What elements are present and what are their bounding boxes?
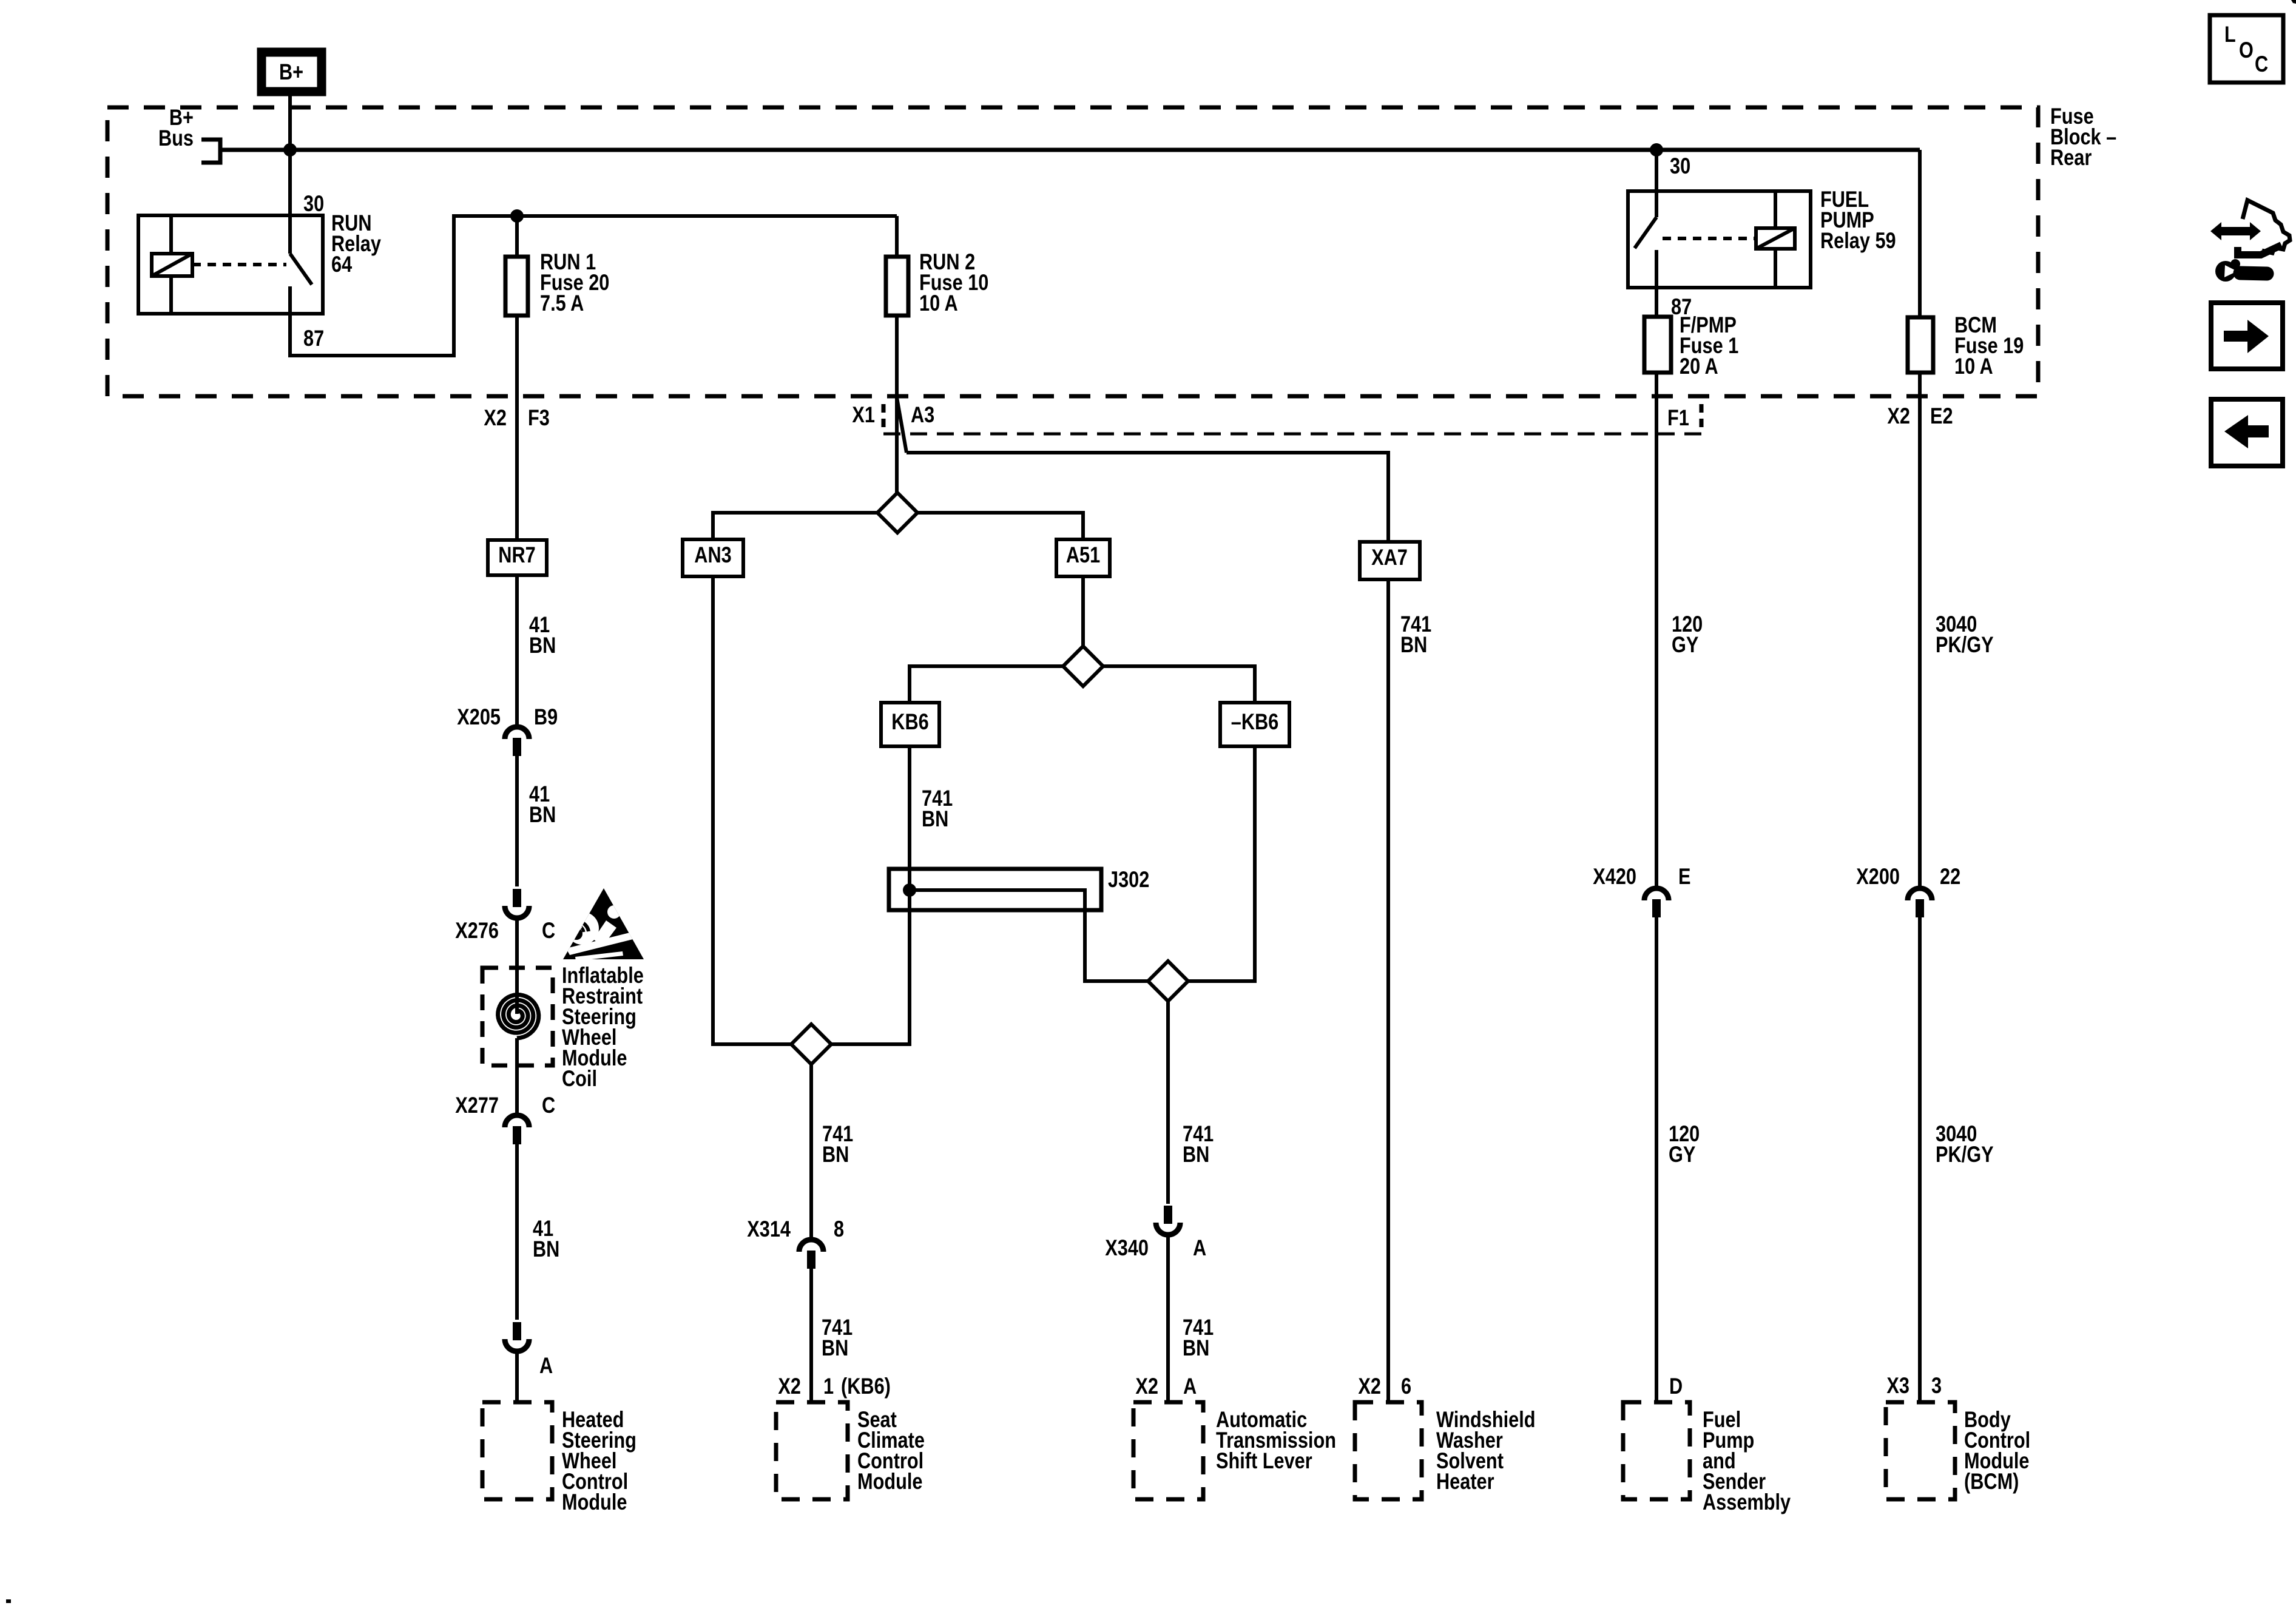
svg-text:8: 8	[834, 1217, 844, 1241]
wire RUN 1 fuse to NR7	[515, 316, 519, 540]
label Inflatable Restraint Steering Wheel Module Coil	[562, 963, 644, 988]
label FUEL PUMP Relay 59	[1820, 187, 1869, 212]
wire X420 to fuel pump (ckt 120 GY)	[1655, 917, 1658, 1402]
svg-text:Assembly: Assembly	[1703, 1490, 1791, 1514]
svg-text:Module: Module	[857, 1469, 922, 1494]
svg-text:A: A	[539, 1353, 553, 1378]
svg-text:10 A: 10 A	[919, 291, 958, 316]
svg-text:AN3: AN3	[694, 542, 731, 567]
wire X314 to seat climate control module (ckt 741 BN)	[809, 1268, 813, 1402]
label RUN Relay 64	[331, 211, 372, 235]
svg-text:BN: BN	[533, 1237, 559, 1261]
svg-text:Rear: Rear	[2050, 145, 2092, 170]
node RUN 1 fuse junction	[510, 209, 524, 223]
svg-text:–KB6: –KB6	[1231, 709, 1279, 734]
label 3040 PK/GY upper	[1936, 612, 1977, 636]
relay FUEL PUMP coil	[1756, 228, 1795, 249]
option box A51	[1056, 539, 1110, 576]
wire -KB6 down to splice 3 (ckt 741 BN)	[1188, 746, 1255, 981]
label 120 GY upper	[1672, 612, 1703, 636]
connector X1 dashed strip	[883, 433, 1701, 436]
label BCM Fuse 19 10 A	[1954, 312, 1997, 337]
svg-text:E: E	[1678, 864, 1690, 889]
relay FUEL PUMP coil wire top	[1774, 191, 1777, 228]
label X2 E2	[1887, 403, 1910, 428]
wire fuel pump relay 87 to F/PMP fuse	[1655, 250, 1658, 317]
label RUN 2 Fuse 10 10 A	[919, 249, 975, 274]
connector A (heated steering wheel)	[505, 1339, 529, 1351]
svg-text:BN: BN	[1183, 1335, 1209, 1360]
connector X420 pin E	[1644, 888, 1669, 900]
node splice S2	[1063, 646, 1103, 686]
wire X200 to BCM (ckt 3040 PK/GY)	[1918, 917, 1922, 1402]
wire splice 4 to X314 (ckt 741 BN)	[809, 1064, 813, 1237]
svg-text:KB6: KB6	[891, 709, 928, 734]
svg-text:X3: X3	[1886, 1373, 1909, 1398]
svg-text:XA7: XA7	[1371, 545, 1408, 570]
svg-text:GY: GY	[1669, 1142, 1696, 1167]
relay RUN coil link dashed	[192, 263, 286, 266]
label X2 6	[1358, 1374, 1381, 1399]
label 87 (RUN relay)	[303, 326, 324, 351]
relay RUN coil	[152, 254, 192, 276]
label X2 F3	[484, 405, 507, 430]
svg-text:64: 64	[331, 252, 352, 277]
wire X340 to automatic transmission shift lever	[1166, 1237, 1170, 1402]
svg-text:PK/GY: PK/GY	[1936, 632, 1994, 657]
svg-text:(BCM): (BCM)	[1964, 1469, 2019, 1494]
svg-text:Relay 59: Relay 59	[1820, 228, 1896, 253]
label F/PMP Fuse 1 20 A	[1680, 312, 1737, 337]
svg-text:10 A: 10 A	[1954, 354, 1993, 379]
label Fuel Pump and Sender Assembly	[1703, 1407, 1741, 1432]
wire RUN 2 fuse feed	[895, 216, 899, 257]
connector X200 pin 22	[1908, 888, 1932, 900]
node splice S4	[791, 1024, 831, 1064]
svg-text:A51: A51	[1066, 542, 1100, 567]
svg-text:20 A: 20 A	[1680, 354, 1718, 379]
label B+ Bus	[169, 105, 194, 130]
svg-text:Coil: Coil	[562, 1066, 597, 1091]
connector X1 dashed stub right	[1700, 404, 1704, 432]
svg-text:X2: X2	[1135, 1374, 1158, 1399]
relay RUN coil wire top	[169, 215, 173, 254]
relay FUEL PUMP pin 30 stub	[1655, 191, 1658, 217]
option box KB6	[881, 703, 939, 746]
wire X276 to coil centre	[515, 920, 519, 1014]
svg-text:(KB6): (KB6)	[841, 1374, 891, 1399]
svg-text:6: 6	[1401, 1374, 1411, 1399]
svg-text:NR7: NR7	[498, 542, 535, 567]
wire RUN relay pin 87 to fuses	[290, 216, 897, 356]
wire B+ bus horizontal	[220, 148, 1920, 152]
svg-text:X420: X420	[1593, 864, 1636, 889]
label Heated Steering Wheel Control Module	[562, 1407, 624, 1432]
label Fuse Block - Rear	[2050, 104, 2094, 129]
relay RUN Relay 64 box	[138, 215, 323, 314]
svg-text:A3: A3	[911, 402, 934, 427]
wire splice to AN3	[713, 513, 877, 539]
connector X340 pin A	[1156, 1223, 1180, 1235]
option box XA7	[1360, 542, 1420, 579]
module Fuel Pump and Sender Assembly box	[1623, 1402, 1690, 1499]
B+ bus bracket	[201, 140, 220, 163]
fuse RUN 1 Fuse 20 7.5A	[505, 257, 528, 316]
label X1 A3	[852, 402, 875, 427]
wire splice 2 to KB6	[910, 666, 1063, 703]
relay RUN pin 87 stub	[288, 286, 292, 315]
module Automatic Transmission Shift Lever box	[1133, 1402, 1203, 1499]
icon LOC box	[2210, 15, 2283, 83]
wire RUN 2 fuse through X1 A3 to splice	[895, 316, 899, 495]
label 741 BN (KB6 wire)	[922, 786, 953, 811]
node fuel pump relay bus junction	[1650, 143, 1663, 157]
label B+	[279, 59, 303, 84]
svg-text:BN: BN	[1400, 632, 1427, 657]
wire A51 down to splice 2	[1081, 576, 1085, 646]
relay FUEL PUMP Relay 59 box	[1628, 191, 1811, 288]
svg-text:Module: Module	[562, 1490, 627, 1514]
label 30 (FUEL PUMP relay)	[1670, 154, 1690, 178]
svg-text:X2: X2	[1887, 403, 1910, 428]
svg-text:C: C	[2255, 52, 2268, 76]
svg-text:A: A	[1193, 1235, 1206, 1260]
svg-text:X2: X2	[1358, 1374, 1381, 1399]
svg-text:O: O	[2239, 38, 2254, 62]
label 741 BN (shift upper)	[1183, 1121, 1214, 1146]
wire X205 to X276 (ckt 41 BN)	[515, 756, 519, 886]
wire B+ terminal drop	[288, 96, 292, 152]
module Seat Climate Control Module box	[776, 1402, 848, 1499]
icon next-page arrow box	[2211, 303, 2283, 369]
svg-text:Heater: Heater	[1436, 1469, 1494, 1494]
svg-text:BN: BN	[922, 806, 948, 831]
relay RUN pin 30 stub	[288, 215, 292, 254]
wire BCM fuse to X200 (ckt 3040 PK/GY)	[1918, 373, 1922, 886]
label X2 A	[1135, 1374, 1158, 1399]
svg-text:X277: X277	[455, 1093, 499, 1118]
svg-text:87: 87	[303, 326, 324, 351]
svg-text:Shift Lever: Shift Lever	[1216, 1448, 1312, 1473]
splice pack J302	[889, 869, 1101, 910]
wire connector A to heated steering wheel module	[515, 1354, 519, 1402]
svg-text:X1: X1	[852, 402, 875, 427]
wire F/PMP fuse to X420 (ckt 120 GY)	[1655, 373, 1658, 886]
stray mark top right	[2291, 0, 2296, 4]
B+ terminal box	[262, 52, 322, 92]
svg-text:J302: J302	[1108, 867, 1149, 892]
label 41 BN middle	[529, 781, 550, 806]
icon previous-page arrow box	[2211, 399, 2283, 466]
svg-text:BN: BN	[529, 802, 556, 827]
stray mark bottom left	[6, 1599, 11, 1603]
option box AN3	[683, 539, 743, 576]
option box NR7	[488, 540, 547, 575]
svg-text:PK/GY: PK/GY	[1936, 1142, 1994, 1167]
label 41 BN upper	[529, 612, 550, 637]
wire splice 2 to -KB6	[1103, 666, 1255, 703]
svg-text:BN: BN	[529, 633, 556, 658]
fuse RUN 2 Fuse 10 10A	[886, 257, 908, 316]
wire AN3 down to splice 4	[713, 576, 791, 1044]
relay RUN switch arm	[290, 254, 312, 285]
svg-text:L: L	[2224, 22, 2236, 47]
connector X205 pin B9	[505, 727, 529, 739]
svg-text:BN: BN	[822, 1335, 848, 1360]
icon service/repair (wrench)	[2210, 222, 2261, 240]
label 3040 PK/GY lower	[1936, 1121, 1977, 1146]
svg-text:1: 1	[823, 1374, 834, 1399]
fuse block rear dashed outline	[107, 107, 2038, 396]
label 741 BN (shift lower)	[1183, 1315, 1214, 1340]
svg-text:C: C	[542, 1093, 555, 1118]
fuse F/PMP Fuse 1 20A	[1644, 317, 1671, 373]
svg-text:F1: F1	[1667, 405, 1689, 430]
svg-text:A: A	[1183, 1374, 1197, 1399]
wire NR7 to X205 (ckt 41 BN)	[515, 575, 519, 725]
node B+ bus junction	[283, 143, 297, 157]
svg-text:X2: X2	[778, 1374, 801, 1399]
module Body Control Module box	[1886, 1402, 1955, 1499]
label 41 BN lower	[533, 1216, 553, 1241]
wire A3 diagonal branch	[897, 397, 907, 453]
connector X276 pin C	[505, 906, 529, 918]
relay FUEL PUMP coil link dashed	[1663, 237, 1756, 240]
svg-text:X340: X340	[1105, 1235, 1149, 1260]
label 120 GY lower	[1669, 1121, 1700, 1146]
svg-text:X205: X205	[457, 704, 501, 729]
wire BCM fuse drop	[1918, 150, 1922, 317]
svg-text:B9: B9	[534, 704, 558, 729]
svg-text:3: 3	[1931, 1373, 1942, 1398]
svg-text:X2: X2	[484, 405, 507, 430]
label X2 1 (KB6)	[778, 1374, 801, 1399]
svg-text:BN: BN	[822, 1142, 849, 1167]
label Windshield Washer Solvent Heater	[1436, 1407, 1536, 1432]
wire XA7 to windshield washer solvent heater (ckt 741 BN)	[1386, 579, 1390, 1402]
connector X314 pin 8	[799, 1240, 823, 1252]
wire A3 branch to XA7	[907, 453, 1388, 542]
svg-text:X314: X314	[747, 1217, 791, 1241]
label Seat Climate Control Module	[857, 1407, 897, 1432]
svg-text:X276: X276	[455, 918, 499, 943]
node splice S1	[877, 493, 917, 533]
label 741 BN (seat upper)	[822, 1121, 853, 1146]
label Automatic Transmission Shift Lever	[1216, 1407, 1307, 1432]
connector X277 pin C	[505, 1115, 529, 1127]
label 87 (FUEL PUMP relay)	[1671, 294, 1692, 319]
wire RUN relay pin 30 drop	[288, 150, 292, 254]
coil dashed box (SIR coil)	[482, 968, 553, 1065]
wire KB6 through J302 to splice 4 (ckt 741 BN)	[831, 746, 910, 1044]
wire coil to X277	[515, 1038, 519, 1113]
svg-text:30: 30	[1670, 154, 1690, 178]
label X3 3	[1886, 1373, 1909, 1398]
svg-text:D: D	[1669, 1374, 1683, 1399]
svg-text:30: 30	[303, 191, 324, 216]
relay FUEL PUMP pin 87 stub	[1655, 250, 1658, 289]
wire splice 3 to X340	[1166, 1001, 1170, 1204]
label F1	[1667, 405, 1689, 430]
label J302	[1108, 867, 1149, 892]
label 741 BN (seat lower)	[822, 1315, 853, 1340]
wire RUN 1 fuse feed	[515, 216, 519, 257]
svg-text:BN: BN	[1183, 1142, 1209, 1167]
option box -KB6	[1220, 703, 1289, 746]
module Windshield Washer Solvent Heater box	[1355, 1402, 1422, 1499]
connector X1 dashed stub left	[882, 404, 886, 432]
wire splice to A51	[917, 513, 1083, 539]
wire X277 to connector A (ckt 41 BN)	[515, 1144, 519, 1320]
svg-text:22: 22	[1940, 864, 1960, 889]
svg-text:C: C	[542, 918, 555, 943]
node J302 junction	[903, 883, 916, 897]
node splice S3	[1148, 961, 1188, 1001]
relay RUN coil wire bottom	[169, 276, 173, 314]
relay FUEL PUMP coil wire bottom	[1774, 249, 1777, 288]
svg-text:B+: B+	[279, 59, 303, 84]
label Body Control Module (BCM)	[1964, 1407, 2011, 1432]
wire J302 branch to splice 3	[910, 890, 1148, 981]
svg-text:F3: F3	[528, 405, 550, 430]
svg-text:GY: GY	[1672, 632, 1699, 657]
svg-text:X200: X200	[1856, 864, 1900, 889]
label RUN 1 Fuse 20 7.5 A	[540, 249, 596, 274]
wire fuel pump relay pin 30 drop	[1655, 150, 1658, 217]
label 30 (RUN relay)	[303, 191, 324, 216]
label 741 BN (XA7 wire)	[1400, 612, 1431, 636]
svg-text:E2: E2	[1930, 403, 1953, 428]
spiral SIR coil symbol	[498, 994, 539, 1038]
module Heated Steering Wheel Control Module box	[482, 1402, 552, 1499]
svg-text:Bus: Bus	[158, 126, 194, 150]
relay FUEL PUMP switch arm	[1635, 217, 1656, 248]
label D	[1669, 1374, 1683, 1399]
svg-text:7.5 A: 7.5 A	[540, 291, 584, 316]
fuse BCM Fuse 19 10A	[1908, 317, 1933, 373]
